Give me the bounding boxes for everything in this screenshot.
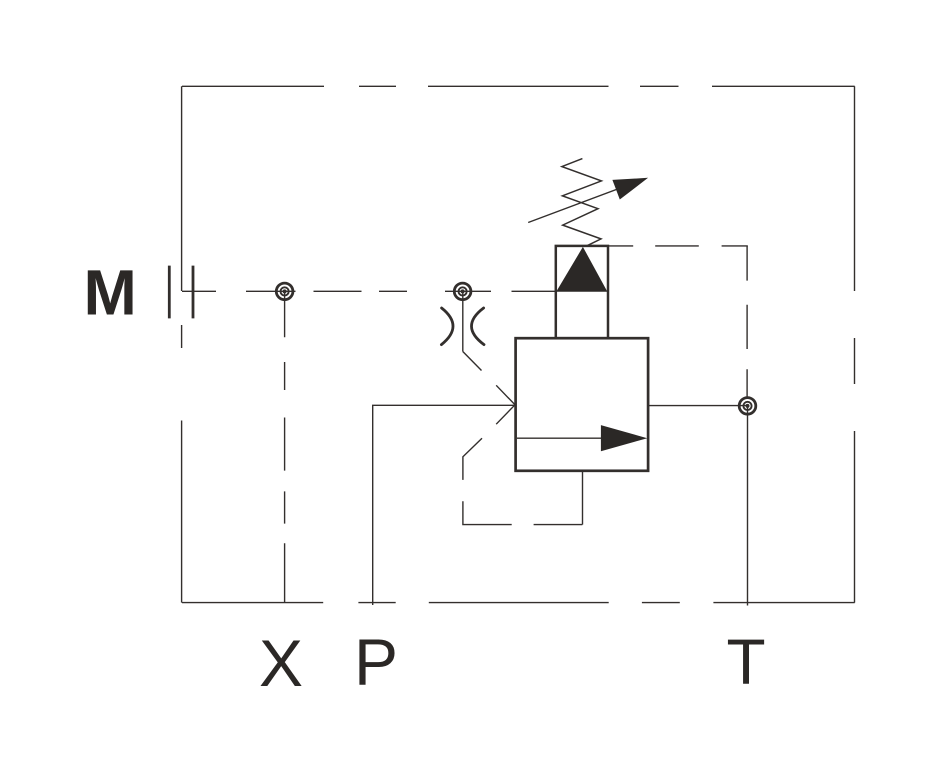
- wire T outlet line from main valve: [648, 405, 747, 407]
- enclosure dashed border right: [854, 86, 856, 602]
- wire dashed vertical drain to TP3: [746, 246, 748, 397]
- spring (adjustable) zigzag: [562, 159, 602, 246]
- pilot flow open arrowhead at main valve inlet: [496, 385, 515, 424]
- wire X riser (dashed): [284, 291, 286, 602]
- svg-text:M: M: [84, 257, 137, 329]
- wire pilot diagonal dashes to main valve: [463, 352, 482, 371]
- test point TP2 (orifice): [454, 283, 471, 300]
- pilot poppet triangle: [556, 247, 607, 292]
- enclosure dashed border bottom: [182, 602, 855, 604]
- wire dashed internal drain loop: [463, 438, 583, 524]
- wire below TP2: [462, 291, 464, 351]
- enclosure dashed border left: [181, 86, 183, 602]
- pilot valve box: [556, 246, 608, 338]
- wire T riser to tank port: [747, 406, 749, 606]
- wire pilot-box top dashed line to T drain corner: [608, 245, 748, 247]
- wire M pilot line (dashed): [182, 290, 556, 292]
- port M plug bars: [169, 266, 193, 319]
- wire P supply line: [373, 405, 516, 605]
- orifice restrictor arcs: [441, 308, 484, 345]
- svg-text:T: T: [727, 626, 766, 698]
- flow arrow inside main valve: [517, 425, 647, 451]
- adjustment arrow through spring: [528, 178, 648, 223]
- test point TP3 (T line): [739, 398, 756, 415]
- test point TP1 (measuring port X line): [276, 283, 293, 300]
- svg-text:P: P: [354, 625, 398, 699]
- enclosure dashed border top: [182, 85, 855, 87]
- main valve body box: [516, 338, 649, 471]
- svg-text:X: X: [259, 626, 303, 700]
- wire main valve drain stub: [582, 471, 584, 525]
